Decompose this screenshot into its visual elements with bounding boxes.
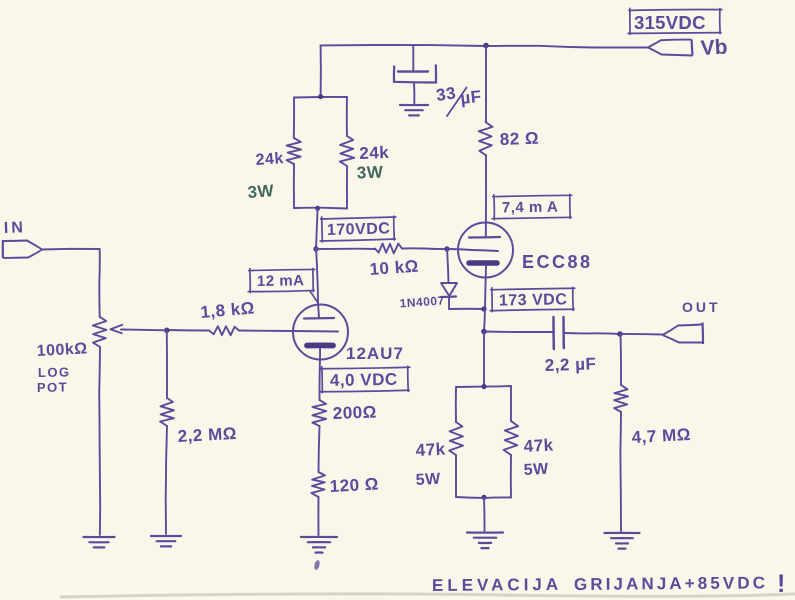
svg-text:LOG: LOG bbox=[38, 364, 71, 380]
svg-text:ELEVACIJA: ELEVACIJA bbox=[432, 575, 562, 595]
wire junction to pot wiper bbox=[121, 329, 167, 332]
resistor R 120ohm bbox=[311, 472, 325, 497]
node 24k bottom junction bbox=[315, 206, 320, 211]
svg-text:IN: IN bbox=[4, 219, 27, 237]
wire 47k box top bbox=[456, 386, 511, 387]
connector Vb bbox=[648, 40, 692, 48]
svg-text:Vb: Vb bbox=[700, 36, 728, 60]
node grid/diode junction bbox=[444, 246, 449, 251]
wire 24k box bottom bbox=[294, 207, 347, 210]
svg-text:10 kΩ: 10 kΩ bbox=[369, 257, 419, 279]
node pot junction bbox=[164, 328, 170, 334]
resistor R 47k right branch bbox=[510, 386, 512, 421]
diode D 1N4007 bbox=[447, 249, 449, 283]
node 24k top junction bbox=[318, 94, 323, 99]
label 315VDC box bbox=[628, 8, 722, 35]
resistor R 82ohm bbox=[479, 122, 493, 155]
svg-text:33: 33 bbox=[435, 83, 457, 105]
ground under 120ohm bbox=[301, 536, 337, 538]
ground under 47k bbox=[467, 531, 503, 533]
svg-text:3W: 3W bbox=[356, 163, 384, 183]
svg-text:100kΩ: 100kΩ bbox=[36, 340, 88, 360]
triode U ECC88 bbox=[458, 223, 513, 278]
resistor R 10k bbox=[316, 248, 375, 250]
svg-text:5W: 5W bbox=[523, 461, 549, 479]
ground under C33uF bbox=[400, 104, 428, 106]
svg-text:3W: 3W bbox=[247, 181, 275, 202]
grid line inside 12AU7 bbox=[293, 330, 338, 333]
ground under pot bbox=[84, 536, 115, 538]
svg-text:POT: POT bbox=[37, 379, 68, 395]
connector IN bbox=[3, 241, 42, 250]
resistor R 2,2M bbox=[166, 330, 168, 398]
wire top rail bbox=[321, 45, 486, 46]
ground under 4,7M bbox=[605, 532, 640, 534]
svg-text:200Ω: 200Ω bbox=[332, 402, 377, 423]
svg-text:24k: 24k bbox=[255, 150, 284, 169]
svg-text:47k: 47k bbox=[523, 435, 554, 456]
svg-text:ECC88: ECC88 bbox=[522, 252, 593, 272]
potentiometer R 100k bbox=[93, 317, 107, 347]
label 173 VDC box bbox=[490, 286, 575, 311]
label 170VDC box bbox=[320, 215, 397, 242]
ground under 2,2M bbox=[151, 535, 181, 537]
svg-text:24k: 24k bbox=[359, 143, 390, 163]
svg-text:2,2 µF: 2,2 µF bbox=[544, 354, 596, 375]
node out/4,7M junction bbox=[617, 331, 623, 337]
resistor R 4,7M bbox=[620, 334, 623, 385]
svg-text:12 mA: 12 mA bbox=[257, 272, 305, 290]
wire 24k box top bbox=[294, 96, 347, 99]
resistor R 24k left branch bbox=[293, 98, 295, 139]
label 12 mA box bbox=[248, 267, 315, 292]
wire to OUT connector bbox=[620, 333, 662, 336]
wire grid 12AU7 bbox=[239, 330, 293, 333]
svg-text:5W: 5W bbox=[415, 471, 441, 489]
resistor R 47k left branch bbox=[455, 387, 457, 422]
wire Vb rail to 82ohm bbox=[485, 46, 487, 122]
wire cathode down bbox=[484, 309, 485, 331]
resistor R 1,8k bbox=[209, 326, 239, 335]
capacitor C 2,2uF bbox=[484, 331, 552, 334]
svg-text:µF: µF bbox=[459, 87, 482, 108]
pot wiper arrow bbox=[111, 325, 124, 334]
svg-text:173 VDC: 173 VDC bbox=[499, 291, 568, 309]
svg-text:OUT: OUT bbox=[682, 299, 721, 315]
svg-text:4,0 VDC: 4,0 VDC bbox=[330, 370, 398, 390]
wire 170VDC node down to 12AU7 plate bbox=[316, 249, 318, 303]
svg-text:4,7 MΩ: 4,7 MΩ bbox=[631, 425, 691, 447]
svg-text:82 Ω: 82 Ω bbox=[499, 129, 539, 149]
svg-text:!: ! bbox=[777, 570, 786, 598]
node 170VDC bbox=[313, 246, 318, 251]
wire 47k box bottom bbox=[456, 496, 511, 499]
svg-text:12AU7: 12AU7 bbox=[346, 344, 404, 363]
resistor R 24k right branch bbox=[346, 97, 348, 136]
svg-text:315VDC: 315VDC bbox=[634, 12, 706, 33]
wire to 24k pair top bbox=[320, 45, 322, 96]
node 47k bottom junction bbox=[481, 495, 486, 500]
paper scan streak bbox=[60, 594, 795, 597]
svg-text:170VDC: 170VDC bbox=[327, 220, 391, 239]
wire 47k to ground bbox=[483, 497, 486, 531]
node 47k top junction bbox=[481, 384, 486, 389]
wire diode to cathode line bbox=[449, 308, 484, 310]
capacitor C 33uF bbox=[412, 46, 414, 71]
node output junction bbox=[481, 329, 487, 335]
svg-text:47k: 47k bbox=[415, 439, 446, 460]
triode U 12AU7 bbox=[293, 305, 348, 360]
label 7,4 mA box bbox=[492, 193, 572, 219]
node top-rail junction bbox=[483, 43, 489, 49]
svg-text:7,4 m A: 7,4 m A bbox=[502, 199, 559, 217]
svg-text:GRIJANJA+85VDC: GRIJANJA+85VDC bbox=[574, 573, 768, 594]
connector OUT bbox=[663, 325, 702, 336]
svg-text:2,2 MΩ: 2,2 MΩ bbox=[177, 424, 237, 446]
wire IN to pot bbox=[42, 248, 99, 251]
svg-text:120 Ω: 120 Ω bbox=[329, 474, 379, 496]
resistor R 200ohm bbox=[318, 359, 321, 400]
label 4,0 VDC box bbox=[320, 365, 410, 393]
node diode/cathode junction bbox=[481, 306, 486, 311]
wire junction to ECC88 grid bbox=[447, 249, 498, 251]
wire 24k bottom to 170VDC node bbox=[316, 209, 318, 250]
